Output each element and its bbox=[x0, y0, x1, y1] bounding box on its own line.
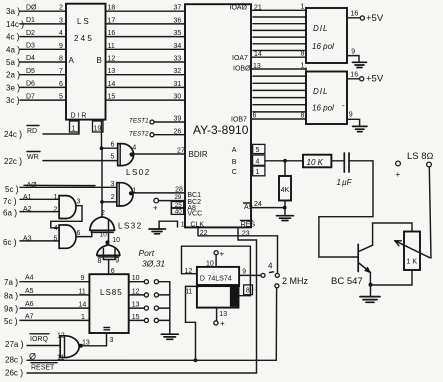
svg-text:74LS74: 74LS74 bbox=[208, 276, 232, 283]
svg-text:35: 35 bbox=[174, 30, 182, 37]
svg-text:2 MHz: 2 MHz bbox=[282, 276, 309, 286]
svg-text:16: 16 bbox=[108, 30, 116, 37]
svg-text:2: 2 bbox=[111, 194, 115, 201]
wire D7 from edge connector 3c to U1 pin 5 bbox=[6, 93, 66, 105]
svg-text:+: + bbox=[220, 319, 225, 328]
text pin 11 of U8 bbox=[185, 289, 192, 296]
svg-text:10 K: 10 K bbox=[307, 158, 324, 167]
svg-text:A5: A5 bbox=[25, 288, 34, 295]
svg-text:12: 12 bbox=[108, 56, 116, 63]
text label Port 30,31 bbox=[139, 248, 166, 269]
svg-text:31: 31 bbox=[174, 81, 182, 88]
IC U2 AY-3-8910 sound generator bbox=[185, 4, 255, 228]
svg-text:5c ): 5c ) bbox=[4, 316, 18, 326]
wire IOA7: U2 to DIL socket K1 bbox=[251, 51, 306, 59]
svg-text:3: 3 bbox=[59, 17, 63, 24]
wire A0 from edge connector 5c to gate U3b input 3 bbox=[5, 181, 117, 194]
wire IOA2: U2 to DIL socket K1 bbox=[253, 23, 306, 25]
svg-text:3: 3 bbox=[111, 181, 115, 188]
svg-text:5: 5 bbox=[54, 235, 58, 242]
svg-text:9: 9 bbox=[242, 269, 246, 276]
svg-text:26: 26 bbox=[174, 129, 182, 136]
wire data bus row 5: U1 pin 12 to U2 pin 33 bbox=[106, 56, 186, 63]
svg-text:B: B bbox=[232, 159, 237, 166]
wire D feedback loop: U8 pin 12 to pin 8 bbox=[182, 246, 253, 296]
svg-text:C: C bbox=[232, 169, 237, 176]
svg-text:19: 19 bbox=[94, 126, 102, 133]
wire C1 output to Q1 base bbox=[319, 161, 373, 257]
text label LS32 bbox=[118, 222, 143, 231]
pullup at U8 pin 13 bbox=[214, 308, 227, 328]
wire D1 from edge connector 14c to U1 pin 3 bbox=[6, 17, 66, 29]
svg-text:A7: A7 bbox=[25, 313, 34, 320]
IC U6 74LS85 comparator bbox=[89, 274, 128, 333]
svg-text:4: 4 bbox=[59, 30, 63, 37]
svg-text:+: + bbox=[220, 250, 225, 259]
wire data bus row 8: U1 pin 15 to U2 pin 30 bbox=[106, 94, 186, 101]
ground at K2 pin 9 bbox=[347, 111, 367, 131]
svg-text:24c ): 24c ) bbox=[4, 129, 22, 139]
wire A7 from edge connector 5c to U6 pin 1 bbox=[4, 313, 89, 326]
svg-text:4K: 4K bbox=[281, 187, 290, 194]
svg-text:4: 4 bbox=[132, 145, 136, 152]
wire IORQ from edge connector 27a to gate U7 input 12 bbox=[5, 333, 65, 350]
svg-text:WR: WR bbox=[27, 154, 39, 161]
wire U6 output pin 10 to port select jumper row 1 bbox=[129, 275, 170, 284]
svg-text:2: 2 bbox=[54, 206, 58, 213]
wire RESET from edge connector 26c to U2 pin 23 bbox=[5, 227, 257, 377]
svg-text:6: 6 bbox=[111, 142, 115, 149]
svg-text:D4: D4 bbox=[26, 55, 35, 62]
ground at Q1 emitter bbox=[360, 285, 380, 302]
svg-text:10: 10 bbox=[132, 275, 140, 282]
svg-text:4a ): 4a ) bbox=[6, 44, 20, 54]
wire D2 from edge connector 4c to U1 pin 4 bbox=[6, 30, 66, 42]
wire U4a output 3 to U4b input 4 bbox=[51, 206, 82, 232]
svg-text:D: D bbox=[200, 276, 205, 283]
wire A1 from edge connector 7c to gate U4a input 1 bbox=[3, 194, 59, 206]
svg-text:D1: D1 bbox=[26, 17, 35, 24]
wire 4MHz: phi riser to bottom jumper post bbox=[275, 288, 277, 360]
svg-text:1: 1 bbox=[54, 194, 58, 201]
IC U8 74LS74 flip-flop divide-by-2 bbox=[197, 267, 239, 308]
svg-text:11: 11 bbox=[185, 289, 192, 296]
svg-text:33: 33 bbox=[174, 56, 182, 63]
wire A5 from edge connector 8a to U6 pin 11 bbox=[4, 288, 89, 301]
wire A4 from edge connector 7a to U6 pin 9 bbox=[4, 275, 89, 288]
wire IOB7: U2 to DIL socket K2 bbox=[251, 113, 306, 120]
wire D4 from edge connector 5a to U1 pin 8 bbox=[6, 55, 66, 67]
wire BDIR: gate U3a output to U2 pin 27 bbox=[134, 147, 186, 154]
wire IOA4: U2 to DIL socket K1 bbox=[253, 36, 306, 38]
svg-text:+5V: +5V bbox=[366, 74, 384, 85]
wire D6 from edge connector 3e to U1 pin 6 bbox=[6, 81, 66, 93]
svg-text:DIL: DIL bbox=[313, 87, 328, 96]
svg-text:VCC: VCC bbox=[187, 210, 202, 217]
wire U6 output pin 12 to port select jumper row 2 bbox=[129, 288, 170, 297]
wire data bus row 3: U1 pin 16 to U2 pin 35 bbox=[106, 30, 186, 37]
svg-text:A4: A4 bbox=[25, 275, 34, 282]
svg-text:RD: RD bbox=[27, 128, 37, 135]
svg-text:IOBØ: IOBØ bbox=[233, 66, 251, 73]
DIL socket K2 16pol bbox=[306, 68, 347, 124]
svg-text:1: 1 bbox=[81, 314, 85, 321]
svg-text:12: 12 bbox=[132, 288, 140, 295]
gate U7 74LS00 NAND (IORQ, phi) bbox=[57, 336, 83, 362]
svg-text:+5V: +5V bbox=[366, 13, 384, 24]
svg-text:8: 8 bbox=[301, 113, 305, 120]
svg-text:7a ): 7a ) bbox=[4, 277, 18, 287]
svg-text:L S: L S bbox=[77, 17, 89, 26]
svg-text:17: 17 bbox=[108, 17, 116, 24]
svg-text:37: 37 bbox=[174, 5, 182, 12]
svg-text:3c ): 3c ) bbox=[6, 95, 20, 105]
svg-text:14: 14 bbox=[108, 81, 116, 88]
svg-text:-: - bbox=[342, 101, 345, 110]
gate U3b 74LS02 NOR (A0,EN -> BC1) bbox=[111, 183, 137, 206]
svg-text:21: 21 bbox=[254, 5, 262, 12]
clock select jumper posts (2MHz / 4MHz) bbox=[261, 262, 279, 288]
wire phi 4MHz from edge connector 28c across to clock jumper bbox=[5, 352, 276, 365]
wire IOB3: U2 to DIL socket K2 bbox=[253, 89, 306, 91]
svg-text:2 4 5: 2 4 5 bbox=[74, 34, 92, 43]
pin box 19 (EN) of U1 bbox=[93, 121, 104, 133]
svg-text:LS85: LS85 bbox=[100, 288, 123, 297]
svg-text:1: 1 bbox=[301, 4, 305, 11]
wire Q1 collector to P1 top bbox=[373, 223, 412, 245]
svg-text:6a ): 6a ) bbox=[3, 208, 17, 218]
svg-text:16: 16 bbox=[351, 11, 359, 18]
svg-text:A: A bbox=[232, 147, 237, 154]
wire U8 pin 12 (D input) bbox=[182, 268, 197, 275]
svg-text:TEST2: TEST2 bbox=[129, 130, 149, 137]
svg-text:27: 27 bbox=[177, 147, 185, 154]
wire IOB1: U2 to DIL socket K2 bbox=[253, 75, 306, 77]
svg-text:5a ): 5a ) bbox=[6, 57, 20, 67]
potentiometer P1 1K bbox=[395, 232, 430, 271]
wire U6 output pin 13 to port select jumper row 3 bbox=[129, 302, 170, 311]
net TEST2: pin 26 of U2 with open terminal bbox=[129, 129, 185, 138]
wire CLK: U2 pin 22 to clock jumper middle post bbox=[198, 227, 278, 273]
svg-text:8: 8 bbox=[59, 56, 63, 63]
gate U4b AND (A3, U4a) bbox=[59, 225, 80, 248]
wire D3 from edge connector 4a to U1 pin 9 bbox=[6, 43, 66, 55]
svg-text:2: 2 bbox=[59, 5, 63, 12]
pullup terminal for BC2/A8/VCC pins of U2 bbox=[153, 194, 185, 215]
wire IOA5: U2 to DIL socket K1 bbox=[253, 43, 306, 45]
junction of U5a and U5b outputs bbox=[105, 237, 120, 245]
svg-text:A6: A6 bbox=[25, 301, 34, 308]
svg-text:3a ): 3a ) bbox=[6, 6, 20, 16]
wire U6 output pin 15 to port select jumper row 4 bbox=[129, 314, 170, 323]
svg-text:D5: D5 bbox=[26, 68, 35, 75]
svg-text:4: 4 bbox=[268, 262, 273, 271]
svg-text:10: 10 bbox=[112, 237, 120, 244]
svg-text:1µF: 1µF bbox=[337, 178, 353, 187]
svg-text:22: 22 bbox=[200, 230, 208, 237]
svg-text:5: 5 bbox=[111, 154, 115, 161]
wire speaker terminal to P1 wiper bbox=[429, 167, 431, 258]
pin box 5: U2 channel A output bbox=[253, 144, 265, 154]
svg-text:LS32: LS32 bbox=[118, 222, 143, 231]
svg-text:7: 7 bbox=[59, 68, 63, 75]
ground at U2 pin 1 (Vss) bbox=[149, 221, 185, 234]
svg-text:LS 8Ω: LS 8Ω bbox=[407, 151, 434, 162]
svg-text:9: 9 bbox=[349, 111, 353, 118]
svg-text:28: 28 bbox=[175, 187, 183, 194]
svg-text:1 K: 1 K bbox=[407, 259, 418, 266]
wire data bus row 4: U1 pin 11 to U2 pin 34 bbox=[106, 43, 186, 50]
text label 2 MHz bbox=[282, 276, 309, 286]
svg-text:18: 18 bbox=[108, 5, 116, 12]
wire U7 output 13 to U6 pin 3 bbox=[81, 333, 114, 346]
wire data bus row 6: U1 pin 13 to U2 pin 32 bbox=[106, 68, 186, 75]
resistor R1 10K coupling bbox=[303, 155, 331, 168]
wire data bus row 1: U1 pin 18 to U2 pin 37 bbox=[106, 5, 186, 12]
svg-text:RESET: RESET bbox=[31, 365, 55, 372]
svg-text:LS02: LS02 bbox=[126, 168, 151, 177]
wire WR from edge connector 22c to gate U3a input 5 bbox=[4, 152, 118, 167]
+5V terminal at K2 pin 16 bbox=[347, 72, 384, 85]
wire A6 from edge connector 9a to U6 pin 14 bbox=[4, 301, 89, 314]
svg-text:15: 15 bbox=[132, 314, 140, 321]
svg-text:1: 1 bbox=[256, 169, 260, 176]
+5V terminal at K1 pin 16 bbox=[347, 11, 384, 25]
pin box 4: U2 channel B output bbox=[253, 155, 265, 166]
svg-text:14: 14 bbox=[79, 302, 87, 309]
svg-text:10: 10 bbox=[100, 232, 108, 239]
svg-text:5: 5 bbox=[256, 147, 260, 154]
wire U8 pin 9 (Q, 2MHz) to left jumper post bbox=[239, 269, 261, 276]
svg-text:13: 13 bbox=[132, 302, 140, 309]
wire mixed audio: channel boxes to R1, junction to R2 bbox=[251, 149, 303, 171]
DIL socket K1 16pol bbox=[306, 8, 347, 63]
pin box 1: U2 channel C output bbox=[253, 166, 265, 176]
svg-text:Port: Port bbox=[139, 248, 155, 258]
svg-text:9: 9 bbox=[115, 258, 119, 265]
svg-text:13: 13 bbox=[108, 68, 116, 75]
svg-text:DIL: DIL bbox=[313, 24, 328, 33]
svg-text:5c ): 5c ) bbox=[5, 184, 19, 194]
svg-text:32: 32 bbox=[174, 68, 182, 75]
svg-text:16 pol: 16 pol bbox=[312, 42, 334, 51]
svg-text:6c ): 6c ) bbox=[3, 237, 17, 247]
net EN: vertical from U1 pin 19 to gate U5a, with taps to U3a and U3b bbox=[100, 120, 118, 218]
svg-text:30: 30 bbox=[174, 94, 182, 101]
wire U4b output 6 up to gate U5a input bbox=[76, 230, 92, 236]
gate U5b 74LS32 OR (pointing up) bbox=[97, 243, 120, 265]
text label LS02 bbox=[126, 168, 151, 177]
svg-text:9: 9 bbox=[81, 275, 85, 282]
svg-text:D2: D2 bbox=[26, 30, 35, 37]
svg-text:10: 10 bbox=[206, 261, 214, 268]
svg-text:BDIR: BDIR bbox=[189, 150, 208, 159]
speaker LS 8 ohm terminals bbox=[396, 151, 434, 179]
wire A3 from edge connector 6c to gate U4b input 5 bbox=[3, 235, 59, 247]
svg-text:D6: D6 bbox=[26, 81, 35, 88]
wire IOA0: U2 to DIL socket K1 bbox=[251, 4, 306, 12]
svg-text:14: 14 bbox=[254, 51, 262, 58]
svg-text:2a ): 2a ) bbox=[6, 70, 20, 80]
svg-text:13: 13 bbox=[219, 311, 227, 318]
wire IOB6: U2 to DIL socket K2 bbox=[253, 111, 306, 113]
svg-text:39: 39 bbox=[174, 116, 182, 123]
wire data bus row 2: U1 pin 17 to U2 pin 36 bbox=[106, 17, 186, 24]
svg-text:6: 6 bbox=[59, 81, 63, 88]
svg-text:15: 15 bbox=[108, 94, 116, 101]
svg-text:D7: D7 bbox=[26, 93, 35, 100]
wire IOB4: U2 to DIL socket K2 bbox=[253, 97, 306, 99]
svg-text:13: 13 bbox=[253, 63, 261, 70]
svg-text:6: 6 bbox=[253, 113, 257, 120]
wire IOA6: U2 to DIL socket K1 bbox=[253, 50, 306, 52]
wire BC1: gate U3b output to U2 pin 28 bbox=[133, 187, 185, 194]
wire IOB0: U2 to DIL socket K2 bbox=[251, 63, 306, 71]
svg-text:36: 36 bbox=[174, 17, 182, 24]
svg-text:B: B bbox=[97, 56, 102, 65]
IC U1 74LS245 buffer bbox=[66, 4, 106, 120]
capacitor C1 1uF bbox=[331, 153, 352, 187]
svg-text:DØ: DØ bbox=[26, 4, 37, 11]
wire A2 from edge connector 6a to gate U4a input 2 bbox=[3, 206, 59, 218]
svg-text:8: 8 bbox=[246, 288, 250, 295]
svg-text:8: 8 bbox=[98, 258, 102, 265]
wire IOA1: U2 to DIL socket K1 bbox=[253, 16, 306, 18]
ground below R2 bbox=[277, 216, 294, 221]
wire P1 bottom to Q1 emitter junction bbox=[369, 270, 413, 287]
svg-text:26c ): 26c ) bbox=[5, 368, 23, 378]
ground at K1 pin 9 bbox=[347, 48, 367, 67]
svg-text:3: 3 bbox=[77, 199, 81, 206]
svg-text:9: 9 bbox=[351, 48, 355, 55]
wire IOB5: U2 to DIL socket K2 bbox=[253, 104, 306, 106]
svg-text:1: 1 bbox=[301, 63, 305, 70]
svg-text:4c ): 4c ) bbox=[6, 32, 20, 42]
svg-text:16: 16 bbox=[350, 72, 358, 79]
svg-text:TEST1: TEST1 bbox=[129, 118, 149, 125]
svg-text:1: 1 bbox=[72, 126, 76, 133]
transistor Q1 BC547 bbox=[331, 244, 373, 287]
svg-text:7c ): 7c ) bbox=[3, 196, 17, 206]
svg-text:3: 3 bbox=[110, 337, 114, 344]
svg-text:A: A bbox=[69, 56, 75, 65]
svg-text:8: 8 bbox=[301, 51, 305, 58]
svg-text:11: 11 bbox=[108, 43, 115, 50]
wire U5b pin 6 down to U6 LS85 bbox=[109, 260, 115, 275]
svg-text:+: + bbox=[396, 170, 401, 179]
svg-text:28c ): 28c ) bbox=[5, 355, 23, 365]
wire D0 from edge connector 3a to U1 pin 2 bbox=[6, 4, 66, 16]
svg-text:5: 5 bbox=[59, 94, 63, 101]
svg-text:8a ): 8a ) bbox=[4, 290, 18, 300]
wire phi branch to U8 clock pin 11 bbox=[186, 286, 197, 360]
svg-text:4: 4 bbox=[54, 225, 58, 232]
gate U5a 74LS32 OR (pointing down) bbox=[90, 210, 115, 242]
svg-text:IOAØ: IOAØ bbox=[230, 5, 248, 12]
gate U3a 74LS02 NOR (WR,EN -> BDIR) bbox=[111, 142, 137, 166]
svg-text:1: 1 bbox=[181, 222, 185, 229]
wire data bus row 7: U1 pin 14 to U2 pin 31 bbox=[106, 81, 186, 88]
wire RD from edge connector 24c to U1 pin 1 bbox=[4, 120, 79, 139]
svg-text:D3: D3 bbox=[26, 43, 35, 50]
svg-text:3e ): 3e ) bbox=[6, 82, 20, 92]
svg-text:34: 34 bbox=[174, 43, 182, 50]
svg-text:9a ): 9a ) bbox=[4, 304, 18, 314]
svg-text:40: 40 bbox=[175, 209, 183, 216]
svg-text:BC 547: BC 547 bbox=[331, 276, 363, 287]
svg-text:16 pol: 16 pol bbox=[312, 104, 334, 113]
wire IOB2: U2 to DIL socket K2 bbox=[253, 82, 306, 84]
pin box 1 (DIR) of U1 bbox=[70, 121, 79, 133]
pullup at U8 pin 10 bbox=[206, 250, 225, 268]
svg-text:9: 9 bbox=[59, 43, 63, 50]
svg-text:RES: RES bbox=[241, 222, 256, 229]
ground bus for jumper field bbox=[161, 282, 178, 340]
svg-text:4: 4 bbox=[256, 159, 260, 166]
svg-text:27a ): 27a ) bbox=[5, 339, 24, 349]
svg-text:22c ): 22c ) bbox=[4, 156, 22, 166]
svg-text:29: 29 bbox=[174, 194, 182, 201]
resistor R2 4K to ground bbox=[279, 161, 291, 216]
wire IOA3: U2 to DIL socket K1 bbox=[253, 29, 306, 31]
svg-text:IOB7: IOB7 bbox=[231, 117, 247, 124]
wire D5 from edge connector 2a to U1 pin 7 bbox=[6, 68, 66, 80]
gate U4a AND (A1,A2) bbox=[59, 196, 80, 219]
svg-text:2: 2 bbox=[101, 210, 105, 217]
svg-text:IORQ: IORQ bbox=[30, 336, 48, 343]
wire A9 (pin 24) of U2 to ground bbox=[252, 201, 287, 210]
svg-text:11: 11 bbox=[79, 288, 86, 295]
svg-text:D I R: D I R bbox=[71, 113, 87, 120]
svg-text:3Ø,31: 3Ø,31 bbox=[142, 259, 165, 269]
svg-text:AY-3-8910: AY-3-8910 bbox=[193, 123, 249, 137]
svg-text:+: + bbox=[153, 204, 158, 213]
net TEST1: pin 39 of U2 with open terminal bbox=[129, 116, 185, 125]
svg-text:24: 24 bbox=[254, 201, 262, 208]
svg-text:IOA7: IOA7 bbox=[232, 55, 248, 62]
